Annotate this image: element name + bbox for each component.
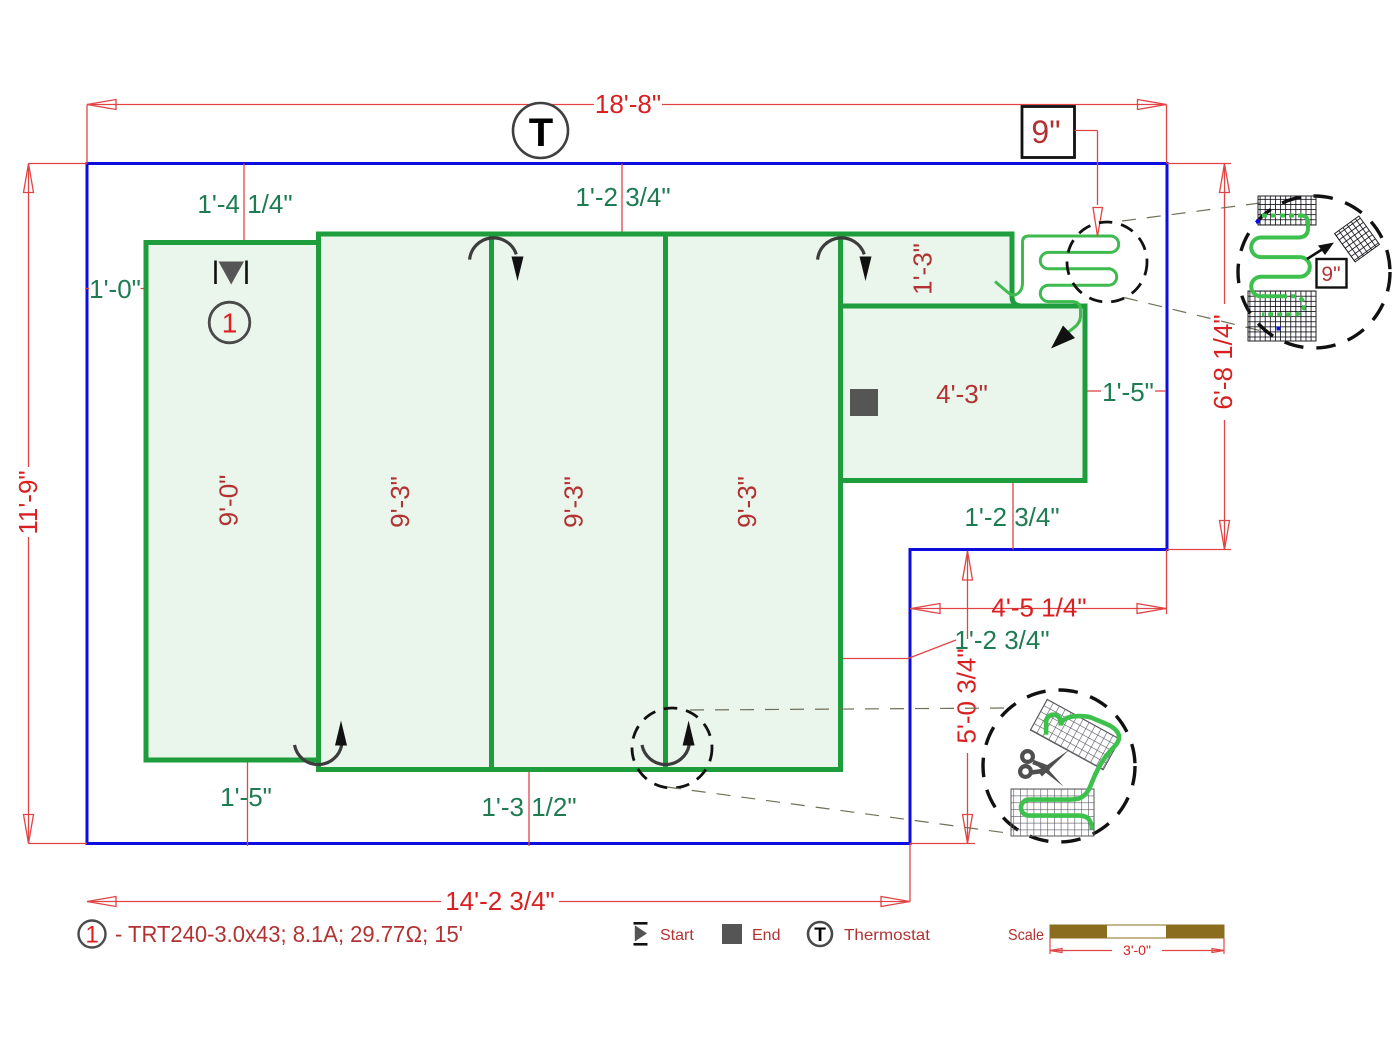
- detail circle c2 contents: [1248, 196, 1379, 341]
- dashed cable inside p3: [1262, 296, 1304, 314]
- svg-text:T: T: [529, 111, 553, 155]
- cable in c4: [1021, 715, 1119, 830]
- svg-text:End: End: [752, 927, 780, 944]
- 9" box top: [1022, 107, 1075, 158]
- legend: [79, 921, 106, 948]
- blue dots: [1256, 220, 1260, 224]
- svg-text:1'-5": 1'-5": [1102, 377, 1154, 407]
- rotated hatched patch top: [1030, 699, 1120, 770]
- dimension 6'-8 1/4" right: [1167, 164, 1231, 550]
- u-turn arrows: [295, 238, 865, 765]
- svg-text:5'-0 3/4": 5'-0 3/4": [952, 648, 982, 743]
- hatched patch p2 rotated: [1335, 216, 1380, 262]
- dashed cable inside p1: [1262, 214, 1301, 218]
- green gap leaders: [85, 164, 1166, 847]
- svg-text:9": 9": [1321, 263, 1340, 286]
- mat fill union: [146, 234, 1085, 770]
- solid cable in c2: [1251, 216, 1310, 297]
- svg-text:6'-8 1/4": 6'-8 1/4": [1208, 314, 1238, 409]
- dashed leader lines: [667, 203, 1266, 834]
- svg-text:1'-2 3/4": 1'-2 3/4": [954, 625, 1049, 655]
- svg-text:1'-3 1/2": 1'-3 1/2": [481, 792, 576, 822]
- small mat: [841, 306, 1086, 481]
- dimension 4'-5 1/4": [910, 550, 1167, 615]
- svg-text:4'-3": 4'-3": [936, 379, 988, 409]
- svg-text:9'-3": 9'-3": [732, 476, 762, 528]
- svg-text:1: 1: [85, 922, 98, 949]
- svg-text:9'-3": 9'-3": [559, 476, 589, 528]
- dimension 5'-0 3/4": [910, 551, 975, 844]
- svg-text:Start: Start: [660, 927, 694, 944]
- svg-text:9'-0": 9'-0": [214, 475, 244, 527]
- hatched patch p3: [1248, 291, 1316, 341]
- svg-text:1'-2 3/4": 1'-2 3/4": [964, 502, 1059, 532]
- svg-text:3'-0": 3'-0": [1123, 942, 1151, 958]
- hatched patch p1: [1258, 196, 1316, 225]
- dimension 18'-8" top: [87, 100, 1167, 164]
- mat 3: [492, 234, 666, 770]
- detail circle c4 contents: [1011, 699, 1120, 836]
- start symbol on mat 1: [216, 261, 247, 285]
- svg-text:1'-4 1/4": 1'-4 1/4": [197, 189, 292, 219]
- mat 2: [319, 234, 492, 770]
- svg-text:18'-8": 18'-8": [595, 89, 661, 119]
- mat 4: [666, 234, 841, 770]
- scissors: [1020, 750, 1069, 787]
- svg-text:1'-3": 1'-3": [908, 243, 938, 295]
- mat 1: [146, 243, 319, 761]
- dashed circle c3 (mat bottom zoom source): [632, 708, 712, 788]
- svg-text:Thermostat: Thermostat: [844, 927, 931, 944]
- top strip: [841, 234, 1024, 306]
- svg-text:Scale: Scale: [1008, 927, 1044, 944]
- black arrow in c2: [1307, 247, 1326, 259]
- svg-text:1'-2 3/4": 1'-2 3/4": [575, 182, 670, 212]
- svg-text:4'-5 1/4": 4'-5 1/4": [991, 593, 1086, 623]
- serpentine cable top-right: [995, 236, 1119, 336]
- circle label 1 on mat: [209, 302, 250, 343]
- svg-text:1: 1: [222, 308, 238, 339]
- svg-text:14'-2 3/4": 14'-2 3/4": [445, 886, 555, 916]
- 9" box in c2: [1317, 259, 1347, 288]
- svg-text:9": 9": [1031, 114, 1060, 150]
- cable arrowhead into small mat: [1051, 326, 1075, 349]
- svg-text:1'-5": 1'-5": [220, 782, 272, 812]
- svg-text:11'-9": 11'-9": [13, 470, 43, 534]
- svg-text:1'-0": 1'-0": [89, 274, 141, 304]
- svg-text:- TRT240-3.0x43; 8.1A; 29.77Ω;: - TRT240-3.0x43; 8.1A; 29.77Ω; 15': [115, 921, 463, 947]
- mat outlines (green): [146, 234, 1085, 770]
- svg-text:T: T: [814, 925, 826, 946]
- end symbol on small mat: [850, 389, 878, 416]
- room outline (blue): [87, 164, 1167, 844]
- dimension 14'-2 3/4" bottom: [87, 844, 910, 907]
- dimension 11'-9" left: [24, 164, 88, 844]
- scale bar: [1050, 925, 1224, 958]
- svg-text:9'-3": 9'-3": [385, 476, 415, 528]
- thermostat circle top: [513, 103, 568, 158]
- hatched patch bottom: [1011, 789, 1094, 836]
- dashed circle c1 (serpentine zoom source): [1067, 222, 1147, 302]
- dashed circle c2 (detail view top right): [1238, 196, 1390, 348]
- dashed circle c4 (detail view with scissors): [983, 690, 1135, 842]
